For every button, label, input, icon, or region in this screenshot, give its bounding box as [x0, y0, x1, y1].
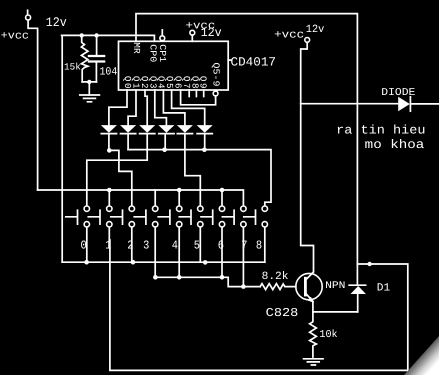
- svg-text:8: 8: [256, 238, 262, 252]
- wire pin C to diode row 3: [145, 90, 147, 125]
- svg-text:mo khoa: mo khoa: [365, 138, 425, 152]
- junction dot right branch: [367, 262, 371, 266]
- wire net diode3 to switch0: [87, 160, 147, 206]
- wire branch to right edge loop: [357, 264, 407, 375]
- svg-text:0: 0: [81, 238, 87, 252]
- svg-text:5: 5: [194, 238, 200, 252]
- svg-text:15k: 15k: [64, 61, 81, 72]
- wire DIODE output line: [301, 103, 439, 105]
- svg-text:12v: 12v: [306, 24, 325, 36]
- wire rail drop switch4: [178, 190, 180, 206]
- wire switch7 bottom to base line: [242, 227, 244, 286]
- wire pin E to diode row 5: [163, 90, 185, 125]
- ground RC: [80, 95, 100, 102]
- pin stub 2: [195, 90, 197, 97]
- svg-text:CD4017: CD4017: [231, 56, 277, 70]
- wire rail end drop switch7: [38, 190, 244, 206]
- svg-text:Q5-9: Q5-9: [211, 63, 222, 87]
- wire switch3 bottom to bus D: [154, 227, 156, 277]
- svg-text:NPN: NPN: [325, 281, 345, 292]
- svg-text:ra tin hieu: ra tin hieu: [336, 124, 425, 138]
- svg-text:3: 3: [143, 238, 149, 252]
- resistor 8.2k: [260, 284, 296, 290]
- ground 10k: [304, 359, 323, 365]
- junction dot rail switch6: [220, 188, 225, 193]
- junction dot busD sw6: [220, 275, 225, 280]
- svg-text:4: 4: [172, 238, 178, 252]
- junction dot 104 top: [94, 33, 98, 37]
- wire net diode1 staircase to switch2: [109, 150, 132, 205]
- diode D1: [349, 285, 366, 312]
- junction dot busC sw0: [84, 260, 89, 265]
- svg-text:7: 7: [241, 238, 247, 252]
- svg-text:8.2k: 8.2k: [262, 271, 289, 283]
- svg-text:Q9: Q9: [198, 76, 209, 89]
- junction dot diode6 bus: [202, 148, 207, 153]
- wire emitter to D1 and 10k: [313, 302, 358, 312]
- wire RC bottom join: [82, 82, 96, 95]
- junction dot busD sw3: [153, 275, 158, 280]
- shadow bottom-right: [404, 336, 439, 375]
- wire pin A to diode row 1: [109, 90, 127, 125]
- wire switch2 bottom to bus C: [131, 227, 133, 262]
- diode row 3: [139, 125, 155, 160]
- svg-text:DIODE: DIODE: [381, 87, 415, 99]
- power terminal +vcc at IC pin16: [190, 30, 195, 41]
- switch SW4: [158, 206, 182, 252]
- wire collector to +vcc top right: [301, 42, 314, 271]
- junction dot 15k top: [80, 33, 84, 37]
- diode row 1: [101, 125, 117, 150]
- junction dot base line sw7: [241, 284, 246, 289]
- switch SW1: [88, 206, 112, 252]
- junction dot rail switch4: [177, 188, 182, 193]
- diode row 4: [158, 125, 174, 150]
- svg-text:12v: 12v: [201, 26, 223, 40]
- wire rail drop switch6: [221, 190, 223, 206]
- pin stub 3: [203, 90, 205, 97]
- switch SW3: [134, 206, 158, 252]
- svg-text:104: 104: [100, 66, 118, 78]
- wire switch8 bottom to bus C end: [264, 227, 266, 262]
- junction dot diode4 bus: [162, 148, 167, 153]
- wire rail drop switch3: [154, 190, 156, 206]
- wire top loop from MR: [136, 14, 357, 286]
- wire from +vcc top-left down to switch rail: [28, 20, 37, 190]
- svg-text:D1: D1: [377, 283, 391, 295]
- switch SW0: [66, 206, 90, 252]
- wire switch4 bottom to bus D: [178, 227, 180, 277]
- pin stub 1: [188, 90, 190, 97]
- op-amp U1 CD4017 IC body: [119, 41, 232, 90]
- wire switch6 bottom to bus D: [221, 227, 223, 277]
- wire pin F to diode row 6: [172, 90, 205, 125]
- svg-text:MR: MR: [131, 42, 142, 54]
- wire pin B to diode row 2: [128, 90, 136, 125]
- junction dot busC sw2: [131, 260, 136, 265]
- wire RC top rail: [62, 35, 155, 41]
- power terminal +vcc top-right: [305, 38, 310, 43]
- junction dot busD sw4: [177, 275, 182, 280]
- junction dot RC bottom: [87, 80, 91, 84]
- wire switch0 bottom to bus C: [86, 227, 88, 262]
- svg-text:12v: 12v: [46, 15, 67, 30]
- wire switch1 bottom to bottom rail: [109, 227, 408, 370]
- wire net diode5 to switch5: [185, 176, 200, 206]
- switch SW2: [111, 206, 135, 252]
- diode row 6: [197, 125, 213, 150]
- svg-text:+vcc: +vcc: [1, 31, 29, 43]
- pin terminal CP1: [160, 30, 165, 41]
- power terminal +vcc top-left: [26, 10, 31, 20]
- junction dot rail switch1: [107, 188, 112, 193]
- svg-text:C828: C828: [266, 306, 299, 320]
- switch SW5: [179, 206, 203, 252]
- capacitor 104: [88, 35, 106, 82]
- resistor 10k: [310, 312, 317, 357]
- wire switch5 bottom to bus C: [199, 227, 201, 262]
- svg-text:10k: 10k: [319, 329, 337, 341]
- svg-text:+vcc: +vcc: [274, 30, 304, 42]
- junction dot busC sw5: [203, 260, 208, 265]
- diode row 2: [120, 125, 136, 150]
- diode DIODE: [398, 97, 410, 111]
- diode row 5: [177, 125, 193, 176]
- resistor 15k: [81, 35, 88, 82]
- wire bus C: [62, 261, 265, 263]
- pin terminal Q5-9 loop: [181, 90, 218, 105]
- wire left box edge: [61, 35, 63, 262]
- wire pin D to diode row 4: [155, 90, 167, 125]
- svg-text:6: 6: [218, 238, 224, 252]
- wire cathode bus to switch8: [128, 150, 271, 206]
- switch SW8: [244, 206, 268, 252]
- pin labels Q0..Q9: [122, 76, 208, 89]
- switch SW6: [201, 206, 225, 252]
- svg-text:CP1: CP1: [157, 44, 168, 63]
- wire rail drop switch1: [108, 190, 110, 206]
- transistor Q1 C828: [296, 272, 322, 303]
- wire bus D to base resistor: [155, 277, 260, 286]
- junction dot diode1: [107, 148, 112, 153]
- switch SW7: [222, 206, 247, 252]
